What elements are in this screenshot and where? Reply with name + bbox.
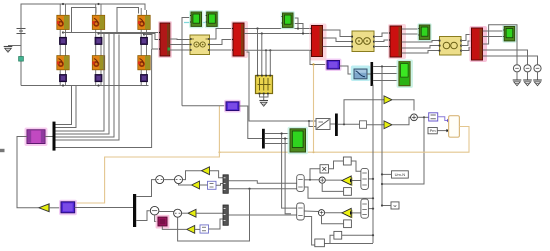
wire K2 to sum S5 [392,117,410,125]
wire measurement to scope A [182,18,190,106]
wire orange jog left run [75,152,219,203]
wire phase A to measure [63,32,160,34]
scope C [281,11,295,29]
node on dq bus [372,197,374,199]
node orange branch to P2 [218,151,220,153]
wire C1 to transform block R1 out1 [228,181,296,184]
signal shape block F1 [351,66,371,82]
node phase A [62,31,64,33]
wire inverter leg C vertical pair [140,8,142,86]
constant block PW [428,128,437,134]
wire MC1 to demux bar [45,136,53,138]
wire X1 to scope D port1 [373,66,398,68]
integrator I1 [208,181,217,189]
wire C1 to transform block R1 out2 [228,188,296,190]
wire T2 to M4 port3 [374,46,390,48]
node DC+ junction col2 [97,3,99,5]
wire branch up to mult M6 [310,169,320,180]
transform block R3 [361,168,369,189]
wire I2 to mux C2 [209,219,224,229]
wire R4 to dq bus [368,208,373,210]
regulator block RG [156,215,170,229]
ground Gb [523,80,532,86]
node phase B [97,32,99,34]
wire cyan link to scope B [184,22,207,24]
IGBT Q4 leg A bottom [57,56,69,70]
gain G1 big pointing left [342,176,353,186]
three-phase VI measurement M4 [388,24,406,59]
transformer T3 [439,37,462,56]
unit delay UD1 [429,113,438,121]
integrator I2 [200,225,209,233]
node pwm pulse join P1 [312,63,314,65]
filter block Z1 [360,121,367,129]
wire second input jog [309,121,316,127]
wire R2 out2 drop to K9 [304,217,315,246]
ground G1 [4,47,13,53]
wire source C to ground [537,72,539,80]
wire P1 to shape block [340,66,354,74]
wire M4 to transformer T3 port1 [402,41,440,43]
wire T3 to M5 port3 [461,48,472,51]
wire S6 to gain G1 [325,179,342,181]
wire M4 to transformer T3 port3 [402,51,440,54]
converter block P1 [325,59,342,72]
arrow PW into PWM [446,129,449,132]
wire M3 bottom to converter P1 [310,50,327,64]
summing junction S5 [411,114,418,121]
wire A4 to sum A2 bottom [179,184,192,185]
wire T2 to M4 port2 [374,40,390,42]
scope G [288,127,309,155]
wire R3 to dq bus [368,178,373,180]
constant block K8 [334,231,342,239]
wire S5 to unit delay [417,116,428,118]
node R3 out [372,178,374,180]
wire load drop c [265,50,267,75]
wire M6 to const block K5 [329,161,344,169]
converter block P3 [59,200,77,216]
wire inverter leg B vertical pair [95,4,97,86]
AC source Va [513,63,520,73]
three-phase VI measurement M5 [470,26,488,62]
three-phase VI measurement M2 [231,21,248,58]
wire tap ic to demux [56,49,152,148]
wire scope C port1 to bus [293,18,298,29]
wire P2 to mux X3 [239,106,262,139]
wire T3 to M5 port1 [461,35,472,41]
demux bar X4 [53,122,56,151]
gain G2 big pointing left [342,208,353,218]
wire X1 to scope D port3 [373,80,398,82]
IGBT Q6 leg C bottom [138,56,150,70]
wire scope C port2 to bus [293,24,303,34]
three-phase VI measurement M3 [310,24,327,61]
wire K9 to K8 link [324,235,334,243]
node tap v2 [284,137,286,139]
snubber S4 leg A [60,75,67,82]
wire load drop b [261,34,263,76]
wire bus phase a [244,28,312,30]
IGBT Q3 leg C top [138,15,150,29]
wire DC+ top rail [21,4,145,86]
scope F [502,25,516,43]
wire A1 to A2 [164,179,175,181]
wire dq tap v1 to R2 [282,134,297,209]
PWM generator subsystem [449,116,460,138]
node orange branch to P1 [313,151,315,153]
constant block K6 [344,188,352,196]
wire UD1 to PWM generator [438,117,448,121]
wire ground branch [8,45,21,47]
wire MC1 input feedback [17,137,39,208]
wire load neutral [260,94,269,97]
wire M1 to transformer T1 port1 [170,38,190,41]
phasor block PH1 [316,119,330,130]
node R4 out [372,208,374,210]
wire C2 to transform block R2 [228,214,296,216]
scope B [205,10,219,28]
node wm tap 2 [381,204,383,206]
node load tap b [261,32,263,34]
wire source A to ground [516,72,518,80]
wire M5 loop to source A [483,25,517,65]
wire orange riser to converter P2 [218,106,220,152]
wire X3 to scope G port1 [265,133,290,135]
wire K8 out to dq bus [342,234,373,236]
wire wm bus to display w [382,205,391,207]
wire dc tap 2 to demux [56,86,77,128]
svg-text:w: w [394,203,397,208]
summing junction S7 [318,210,324,216]
wire G2 to transform R4 [352,212,361,214]
wire PW to PWM generator [437,130,447,132]
wire X2 out with branch [338,123,360,125]
node angle junction [308,120,310,122]
wire K9 to dq bus bottom [330,243,373,245]
wire B1 down to regulator RG [155,215,158,222]
transformer T2 [351,31,375,52]
node branch gain up [343,123,345,125]
wire long vertical dq bus [372,85,374,244]
transform block R1 [297,175,305,192]
wire neutral stub [263,94,265,100]
summing junction B2 [174,209,182,217]
scope D [397,60,414,89]
wire B2 bottom feedback loop [178,189,250,241]
wire X5 to sum A1 [136,180,155,197]
multiply block M6 [320,165,329,173]
snubber S1 leg A [60,37,67,44]
converter block P2 [224,100,241,113]
mux block C1 [223,175,228,194]
snubber S6 leg C [141,75,148,82]
gain B4 pointing left [187,226,195,234]
wire A3 to mux C1 [210,171,224,178]
wire tap vc to demux [56,34,115,138]
wire M4 to scope E port2 [402,33,419,35]
wire M5 to source C [483,56,538,65]
wire M3 to transformer T2 port1 [323,30,352,37]
wire K7 to S7 bottom [322,216,344,224]
scope A [189,10,203,28]
wire M4 to transformer T3 port2 [402,46,440,49]
svg-text:Pm: Pm [430,128,437,133]
snubber S5 leg B [95,75,102,82]
gain K2 [384,121,392,129]
wire K5 to R3 [351,161,361,171]
wire M3 to transformer T2 port3 [323,46,352,48]
wire orange riser to converter P1 [313,65,315,153]
wire R1 out1 branch [304,179,319,181]
AC source Vc [534,63,541,73]
current measurement i1 [19,57,24,62]
summing junction S6 [319,177,325,183]
wire X5 to sum B1 [136,211,150,221]
wire gate loop leg A-B [72,8,97,33]
node phase C [143,33,145,35]
wire PH1 to mux X2 [330,123,335,125]
IGBT Q5 leg B bottom [92,56,104,70]
wire long link to scope A riser [182,105,226,107]
gain FB1 pointing left [39,204,49,212]
node bus tap scope C [297,27,299,29]
wire B1 to B2 [159,211,174,213]
wire I1 to mux C1 [216,184,223,186]
IGBT Q2 leg B top [92,15,104,29]
summing junction A2 [175,176,183,184]
wire M3 to transformer T2 port2 [323,38,352,42]
demux bar X5 [133,194,136,227]
node K8 join [372,234,374,236]
node tap v1 [281,132,283,134]
wire M4 to scope E port1 [402,28,419,30]
snubber S2 leg B [95,37,102,44]
node feedback drop [423,116,425,118]
wire pwm pulses orange loop [219,127,469,153]
wire K6 to S6 bottom [322,183,343,191]
gain B3 pointing left [188,209,196,217]
wire S7 to gain G2 [325,212,342,214]
wire R1 out2 [304,187,373,198]
AC source Vb [524,63,531,73]
wire T1 to measurement M2 port1 [210,29,234,40]
wire mux C2 to gain B3 [196,212,223,214]
DC voltage source E1 [17,29,26,34]
arrow into PWM [447,119,450,123]
mux bar X1 [371,62,374,86]
wire M5 to scope F port1 [483,30,504,32]
wire Z1 to gain K2 [367,124,385,126]
wire tap ia to demux [56,35,120,141]
snubber S3 leg C [141,37,148,44]
wire inverter leg A vertical pair [59,4,61,86]
wire bus drop to transfo-angle block [247,52,317,121]
wire source B to ground [527,72,529,80]
IGBT Q1 leg A top [57,15,69,29]
node DC- junction col1 [62,84,64,86]
wire phase B to measure [99,34,161,40]
svg-text:Um-N: Um-N [395,172,406,177]
wire B4 to regulator RG bottom [162,226,186,229]
wire long vertical wm bus [381,67,383,206]
wire T2 to M4 port1 [374,33,390,37]
node bus tap 2 scope C [302,32,304,34]
wire M5 to source B [483,50,528,65]
wire bus phase b [244,33,312,35]
node load tap c [265,49,267,51]
wire dq tap v2 [285,139,291,214]
node R1 branch [309,179,311,181]
wire gate loop leg B-C [117,8,139,34]
wire M1 to transformer T1 port2 [170,44,190,46]
left margin mark [0,149,5,152]
gain K1 [384,96,392,104]
wire K1 to sum S5 top [392,100,414,111]
wire P3 to demux X5 [75,207,133,209]
wire dc tap 1 to demux [56,86,72,125]
wire X1 to scope D port2 [373,73,398,75]
node wm tap on port1 wire [381,65,383,67]
wire B4 to I2 [195,228,200,230]
display block w [391,202,399,209]
display block Um [392,171,409,178]
ground G2 load neutral [259,101,268,107]
wire feedback drop to bus [382,117,424,184]
gain A3 pointing left [202,167,210,175]
wire bus phase c [244,49,312,51]
wire DC- bottom rail [21,85,149,87]
transformer T1 [190,35,210,55]
wire T1 to measurement M2 port3 [210,49,234,51]
wire tap va to demux [56,33,105,132]
wire G1 to transform R3 [352,180,361,182]
wire M1 to transformer T1 port3 [170,49,190,51]
wire A2 right riser [183,171,202,180]
scope E [417,23,431,41]
mux block C2 [223,205,228,225]
wire X3 to scope G port2 [265,138,290,140]
node feedback tap [248,188,250,190]
summing junction A1 [156,176,164,184]
node wm bus tap [381,173,383,175]
wire load drop a [257,29,259,76]
wire wm bus to display Um [382,173,392,175]
node DC+ junction col1 [62,3,64,5]
wire tap vb to demux [56,34,110,135]
ground Ga [513,80,522,86]
transform block R4 [361,199,369,218]
three-phase VI measurement M1 [158,21,172,58]
wire B3 to B2 [182,212,188,214]
constant block K5 [343,157,351,165]
wire A4 to I1 [200,184,208,186]
node load tap a [256,27,258,29]
wire FB1 to converter P3 [49,207,61,209]
node DC- junction col2 [97,84,99,86]
wire F1 to mux [367,73,371,75]
constant block K9 [315,239,325,247]
three-phase RLC load L1 [256,75,273,95]
wire branch to gain K1 [344,100,384,125]
wire T1 to measurement M2 port2 [210,40,234,45]
wire X3 to scope G port3 [265,143,290,145]
machine block MC1 [25,128,48,147]
wire load drop n [269,50,271,75]
summing junction B1 [150,206,159,215]
mux bar X2 [335,114,338,137]
wire T3 to M5 port2 [461,41,472,46]
wire M5 to scope F port2 [483,36,504,38]
constant block K7 [344,220,352,228]
transform block R2 [297,203,305,220]
wire R2 to S7 [304,210,318,213]
wire phase C to measure [144,35,160,50]
mux bar X3 [262,129,265,149]
gain A4 pointing left [192,181,200,189]
node feedback join [381,183,383,185]
ground Gc [533,80,542,86]
